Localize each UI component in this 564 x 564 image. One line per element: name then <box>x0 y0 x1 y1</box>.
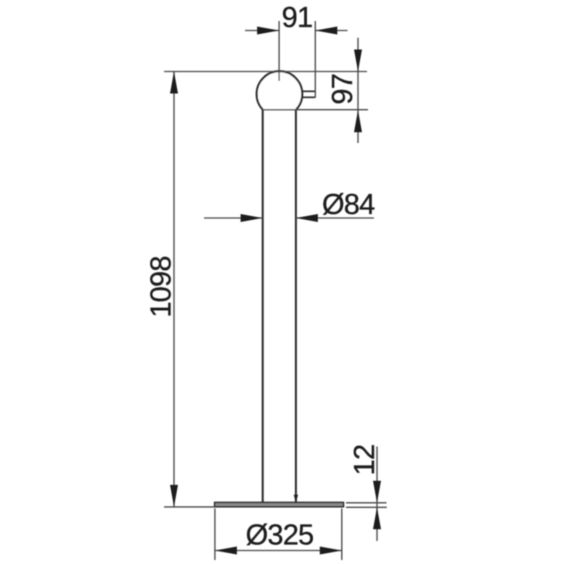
svg-text:12: 12 <box>349 445 381 476</box>
svg-text:91: 91 <box>282 2 313 34</box>
svg-text:97: 97 <box>327 74 359 105</box>
svg-text:Ø84: Ø84 <box>322 189 375 221</box>
svg-text:1098: 1098 <box>146 256 178 317</box>
svg-text:Ø325: Ø325 <box>246 520 314 552</box>
